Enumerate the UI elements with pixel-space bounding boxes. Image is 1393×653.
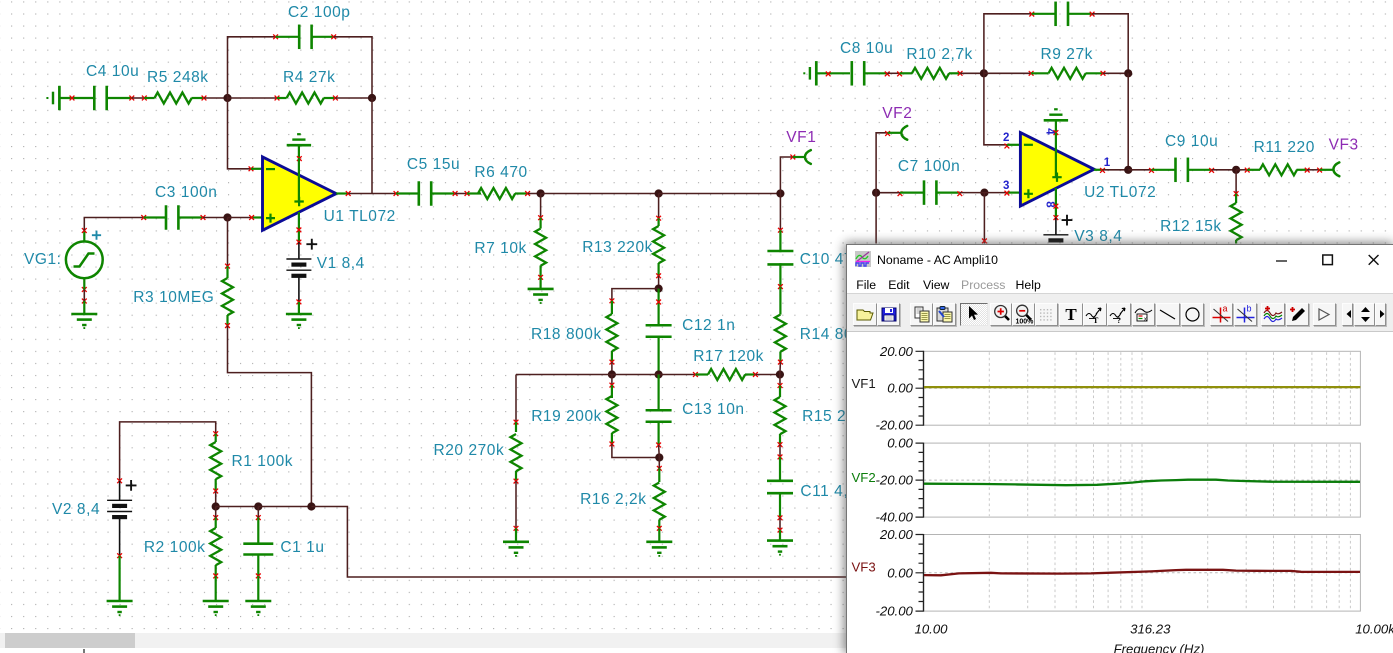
svg-text:0.00: 0.00 xyxy=(887,435,913,450)
toolbar button save xyxy=(877,303,901,326)
wire xyxy=(1127,73,1129,170)
svg-text:R19 200k: R19 200k xyxy=(531,408,602,425)
resistor R13 xyxy=(658,194,660,219)
wire xyxy=(228,326,312,507)
svg-text:R4 27k: R4 27k xyxy=(283,69,335,86)
svg-text:V1 8,4: V1 8,4 xyxy=(317,255,365,272)
wire xyxy=(1128,169,1151,171)
toolbar xyxy=(847,294,1393,332)
U2 supply pin top xyxy=(1055,133,1057,178)
maximize button xyxy=(1322,245,1334,276)
probe VF3 xyxy=(1320,169,1334,171)
junction K xyxy=(655,453,663,461)
svg-text:20.00: 20.00 xyxy=(879,343,914,358)
battery V1 xyxy=(298,242,300,259)
capacitor C6 (label off-screen) xyxy=(1032,13,1056,15)
junction M xyxy=(254,502,262,510)
wire xyxy=(59,97,93,99)
resistor R7 xyxy=(540,194,542,218)
svg-text:VF2: VF2 xyxy=(882,105,912,122)
ground under VG1 xyxy=(82,287,87,292)
wire xyxy=(83,231,85,242)
capacitor C12 xyxy=(657,289,659,326)
wire xyxy=(204,97,228,99)
wire xyxy=(334,37,372,98)
junction U xyxy=(1232,166,1240,174)
resistor R17 xyxy=(695,373,708,375)
ground under R16 xyxy=(658,528,660,542)
resistor R14 xyxy=(779,287,781,315)
svg-text:C5 15u: C5 15u xyxy=(407,156,460,173)
wire xyxy=(311,507,846,578)
svg-text:R10 2,7k: R10 2,7k xyxy=(906,46,972,63)
capacitor C10 xyxy=(779,194,781,231)
junction H xyxy=(608,370,616,378)
gridlines VF3 xyxy=(989,535,1350,610)
wire xyxy=(528,193,541,195)
toolbar spinner xyxy=(1354,303,1375,326)
toolbar button across xyxy=(1210,303,1234,326)
svg-text:-20.00: -20.00 xyxy=(875,417,913,432)
svg-text:V2 8,4: V2 8,4 xyxy=(52,501,100,518)
wire xyxy=(120,422,216,481)
U1 output lead xyxy=(336,192,348,194)
resistor R9 xyxy=(984,72,1031,74)
toolbar button paste xyxy=(933,303,957,326)
svg-text:VF1: VF1 xyxy=(786,129,816,146)
svg-text:R11 220: R11 220 xyxy=(1254,139,1315,156)
svg-text:Frequency (Hz): Frequency (Hz) xyxy=(1114,641,1205,653)
close button xyxy=(1368,245,1380,276)
svg-text:10.00: 10.00 xyxy=(914,621,948,636)
toolbar button curT xyxy=(1083,303,1107,326)
svg-text:100%: 100% xyxy=(1015,319,1034,326)
toolbar button zoomp xyxy=(990,303,1013,326)
ground under R7 xyxy=(539,277,541,289)
input terminal IN1 xyxy=(46,97,48,99)
toolbar button zoomm xyxy=(1012,303,1036,326)
wire xyxy=(875,193,877,244)
svg-text:0.00: 0.00 xyxy=(887,380,913,395)
toolbar button arrow xyxy=(960,303,988,326)
capacitor C2 xyxy=(276,36,300,38)
resistor R1 xyxy=(215,434,217,442)
status tick xyxy=(83,649,85,653)
junction N xyxy=(307,502,315,510)
wire to U2 inverting input xyxy=(984,73,1007,145)
wire xyxy=(215,491,217,507)
junction B xyxy=(368,94,376,102)
toolbar button circle xyxy=(1181,303,1205,326)
wire xyxy=(515,481,517,528)
capacitor C4 xyxy=(93,86,96,111)
capacitor C3 xyxy=(144,216,166,218)
wire xyxy=(887,72,899,74)
toolbar button post xyxy=(1313,303,1337,326)
svg-text:0.00: 0.00 xyxy=(887,565,913,580)
junction L xyxy=(212,502,220,510)
op-amp U1 xyxy=(251,168,263,170)
plot frame VF2 xyxy=(924,443,1361,517)
svg-text:V3 8,4: V3 8,4 xyxy=(1074,228,1122,245)
battery V2 xyxy=(117,478,122,483)
junction R (U2 + input) xyxy=(980,189,988,197)
wire xyxy=(216,506,259,508)
junction P xyxy=(980,69,988,77)
wire xyxy=(984,14,1032,74)
svg-text:VF3: VF3 xyxy=(852,559,876,574)
ground under C1 xyxy=(257,576,259,601)
wire xyxy=(258,506,311,508)
svg-text:R12 15k: R12 15k xyxy=(1160,218,1222,235)
resistor R11 xyxy=(1236,169,1247,171)
wire xyxy=(228,37,276,98)
wire xyxy=(612,289,659,301)
wire xyxy=(455,193,467,195)
svg-text:C1 1u: C1 1u xyxy=(280,539,324,556)
wire xyxy=(1103,169,1129,171)
junction D xyxy=(537,189,545,197)
window title bar xyxy=(847,245,1393,276)
input terminal IN2 xyxy=(803,72,805,74)
wire xyxy=(371,98,373,194)
y axis VF3 xyxy=(923,534,925,612)
toolbar button curQ xyxy=(1107,303,1131,326)
U1 supply pin bottom xyxy=(298,212,300,242)
svg-text:R5 248k: R5 248k xyxy=(147,69,209,86)
U1 supply ground xyxy=(298,145,300,158)
wire xyxy=(203,217,228,219)
toolbar button pen xyxy=(1286,303,1310,326)
toolbar button legend xyxy=(1132,303,1156,326)
svg-text:R16 2,2k: R16 2,2k xyxy=(580,491,646,508)
svg-text:T: T xyxy=(1065,305,1077,324)
AC analysis window xyxy=(846,244,1393,653)
wire to inverting input xyxy=(228,98,252,169)
svg-text:R9 27k: R9 27k xyxy=(1041,46,1093,63)
svg-text:C8 10u: C8 10u xyxy=(840,40,893,57)
wire xyxy=(983,193,985,244)
capacitor C13 xyxy=(657,375,659,411)
toolbar button copy xyxy=(910,303,933,326)
diagram plots xyxy=(847,332,1393,653)
wire xyxy=(119,517,121,556)
wire xyxy=(984,192,1007,194)
toolbar button line xyxy=(1156,303,1180,326)
op-amp U2 xyxy=(1007,144,1021,146)
U2 supply pin bottom xyxy=(1055,188,1057,218)
wire xyxy=(541,193,659,195)
svg-text:20.00: 20.00 xyxy=(879,527,914,542)
wire xyxy=(779,518,781,530)
resistor R2 xyxy=(213,515,218,520)
svg-text:-20.00: -20.00 xyxy=(875,472,913,487)
battery V3 xyxy=(1055,218,1057,235)
wire xyxy=(612,444,659,458)
wire xyxy=(816,72,850,74)
source VG1 xyxy=(66,241,103,278)
curve VF3 xyxy=(924,569,1360,575)
svg-text:U1 TL072: U1 TL072 xyxy=(324,208,396,225)
toolbar button waves xyxy=(1261,303,1285,326)
ground under R20 xyxy=(515,528,517,542)
resistor R15 xyxy=(779,375,781,386)
menu bar xyxy=(847,278,1393,295)
svg-text:R17 120k: R17 120k xyxy=(693,348,764,365)
resistor R16 xyxy=(657,466,662,471)
junction T (U2 output) xyxy=(1124,166,1132,174)
toolbar nav right xyxy=(1375,303,1386,326)
wire xyxy=(876,192,900,194)
toolbar button T xyxy=(1059,303,1083,326)
resistor R20 xyxy=(515,375,517,423)
svg-text:C4 10u: C4 10u xyxy=(86,63,139,80)
ground under V1 xyxy=(298,302,300,314)
junction E xyxy=(655,189,663,197)
toolbar nav left xyxy=(1342,303,1353,326)
junction G xyxy=(655,285,663,293)
probe VF2 xyxy=(876,133,888,193)
svg-text:R2 100k: R2 100k xyxy=(144,539,206,556)
plot frame VF1 xyxy=(924,351,1361,425)
wire to R3 xyxy=(227,218,229,267)
toolbar button open xyxy=(853,303,877,326)
svg-text:C3 100n: C3 100n xyxy=(155,184,217,201)
resistor R3 xyxy=(226,266,228,278)
svg-text:316.23: 316.23 xyxy=(1130,621,1171,636)
wire xyxy=(779,362,782,374)
gridlines VF1 xyxy=(989,352,1350,424)
U2 supply ground xyxy=(1055,120,1057,132)
svg-text:VG1:: VG1: xyxy=(24,251,62,268)
resistor R10 xyxy=(900,72,913,74)
capacitor C9 xyxy=(1152,169,1176,171)
svg-text:2: 2 xyxy=(1003,132,1010,144)
svg-text:VF3: VF3 xyxy=(1329,137,1359,154)
svg-text:10.00k: 10.00k xyxy=(1355,621,1393,636)
svg-text:x: x xyxy=(1144,317,1147,323)
wire xyxy=(960,192,985,194)
resistor R5 xyxy=(144,97,154,99)
toolbar button grid xyxy=(1035,303,1058,326)
capacitor C5 xyxy=(396,192,419,194)
wire xyxy=(132,97,145,99)
svg-text:R18 800k: R18 800k xyxy=(531,326,602,343)
svg-text:T: T xyxy=(1093,316,1099,325)
junction I xyxy=(655,370,663,378)
resistor R6 xyxy=(467,192,481,194)
ground under V2 xyxy=(118,556,120,601)
junction Q xyxy=(1124,69,1132,77)
wire xyxy=(659,193,781,195)
svg-text:C7 100n: C7 100n xyxy=(898,158,960,175)
wire xyxy=(1092,14,1128,74)
svg-text:R6 470: R6 470 xyxy=(474,164,527,181)
ground under C11 xyxy=(779,530,781,541)
wire xyxy=(611,362,613,374)
svg-text:C12 1n: C12 1n xyxy=(682,317,735,334)
svg-text:b: b xyxy=(1246,304,1251,314)
svg-text:C2 100p: C2 100p xyxy=(288,4,350,21)
resistor R19 xyxy=(611,375,613,386)
resistor R18 xyxy=(611,301,613,314)
curve VF2 xyxy=(924,479,1360,485)
svg-text:a: a xyxy=(1222,304,1227,314)
resistor R4 xyxy=(228,97,278,99)
gridlines VF2 xyxy=(989,444,1350,516)
capacitor C11 xyxy=(779,457,781,481)
toolbar button bcross xyxy=(1234,303,1258,326)
wire xyxy=(755,374,780,376)
junction J xyxy=(776,370,784,378)
U1 supply pin top xyxy=(298,158,300,202)
junction F (VF1 node) xyxy=(776,189,784,197)
svg-text:3: 3 xyxy=(1003,180,1010,192)
svg-text:-40.00: -40.00 xyxy=(875,509,913,524)
curve VF1 xyxy=(924,385,1360,387)
capacitor C7 xyxy=(898,191,903,196)
y axis VF2 xyxy=(923,442,925,517)
svg-text:?: ? xyxy=(1117,316,1121,325)
wire xyxy=(779,445,781,457)
minimize button xyxy=(1276,245,1288,276)
plot frame VF3 xyxy=(924,534,1361,611)
junction A xyxy=(223,94,231,102)
svg-text:R1 100k: R1 100k xyxy=(232,453,294,470)
junction S (VF2 node) xyxy=(872,189,880,197)
schematic horizontal scrollbar xyxy=(0,633,870,649)
svg-text:VF2: VF2 xyxy=(852,470,876,485)
svg-text:C13 10n: C13 10n xyxy=(682,401,744,418)
U2 output lead xyxy=(1094,169,1103,171)
svg-text:R13 220k: R13 220k xyxy=(582,239,653,256)
junction C (U1 + input) xyxy=(223,213,231,221)
y axis VF1 xyxy=(923,350,925,425)
svg-text:C9 10u: C9 10u xyxy=(1165,133,1218,150)
svg-text:U2 TL072: U2 TL072 xyxy=(1084,184,1156,201)
svg-text:VF1: VF1 xyxy=(852,376,876,391)
svg-text:R7 10k: R7 10k xyxy=(474,240,526,257)
ground under R2 xyxy=(215,576,217,601)
svg-text:R20 270k: R20 270k xyxy=(434,442,505,459)
wire xyxy=(298,276,300,302)
wire xyxy=(228,217,252,219)
wire xyxy=(1212,169,1237,171)
svg-text:R3 10MEG: R3 10MEG xyxy=(133,289,214,306)
svg-text:-20.00: -20.00 xyxy=(875,603,913,618)
window icon xyxy=(855,251,871,267)
wire xyxy=(348,193,396,195)
capacitor C8 xyxy=(850,61,853,86)
probe VF1 xyxy=(780,157,792,194)
wire xyxy=(1307,169,1319,171)
capacitor C1 xyxy=(256,515,261,520)
svg-text:1: 1 xyxy=(1104,157,1111,169)
wire xyxy=(960,72,984,74)
resistor R12 xyxy=(1235,170,1237,194)
wire y=374.5 xyxy=(516,374,612,376)
